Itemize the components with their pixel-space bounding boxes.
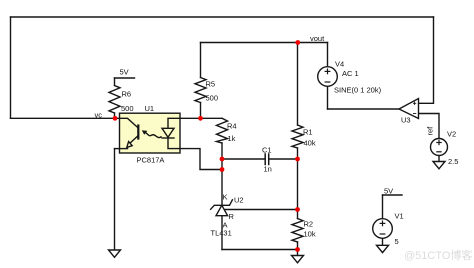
svg-text:40k: 40k: [304, 139, 316, 148]
svg-text:R1: R1: [303, 128, 313, 137]
U1 phototransistor collector: [120, 118, 139, 128]
wire R6 bottom lead: [114, 113, 116, 118]
V2 minus sign: [437, 151, 441, 153]
svg-text:5: 5: [395, 237, 399, 246]
U1 phototransistor emitter: [129, 136, 139, 145]
wire opamp minus input: [419, 114, 440, 139]
wire U1 led cathode to TL431: [180, 149, 222, 170]
voltage source V4: [318, 67, 338, 87]
svg-text:V1: V1: [395, 212, 404, 221]
wire 5V stub right: [383, 194, 403, 196]
TL431 U2 cathode bar: [211, 200, 233, 210]
wire U1 emitter pin out: [115, 148, 120, 150]
wire V1 top lead: [382, 195, 384, 219]
wire V1 ground lead: [382, 238, 384, 245]
wire TL431 ref to R2 junction: [224, 209, 298, 211]
wire V2 ground lead: [438, 156, 440, 162]
svg-text:U1: U1: [145, 104, 155, 113]
wire vc row: [11, 117, 120, 119]
resistor R6: [109, 86, 120, 114]
voltage source V1: [373, 219, 393, 239]
svg-text:ref: ref: [426, 126, 435, 136]
svg-text:2.5: 2.5: [448, 157, 458, 166]
svg-text:V4: V4: [335, 60, 344, 69]
resistor R4: [217, 118, 228, 143]
svg-text:1n: 1n: [264, 165, 272, 174]
wire R1 top lead: [297, 43, 299, 126]
svg-text:TL431: TL431: [211, 229, 232, 238]
wire R4 to C1 junction down: [221, 159, 223, 170]
U1 led cathode lead: [168, 138, 180, 149]
wire R1 bottom lead: [297, 148, 299, 159]
wire R6 top lead: [114, 78, 116, 86]
wire top rail: [11, 16, 434, 18]
U1 light arrowhead: [142, 130, 148, 135]
junction ref R2: [295, 207, 300, 212]
svg-text:SINE(0 1 20k): SINE(0 1 20k): [334, 86, 382, 95]
wire C1 left: [222, 158, 265, 160]
svg-text:R6: R6: [122, 90, 132, 99]
wire C1 right: [269, 158, 298, 160]
junction R5 R4 U1: [198, 116, 203, 121]
wire V4 top lead: [327, 43, 329, 67]
U1 emitter arrowhead: [127, 142, 132, 148]
svg-text:10k: 10k: [304, 230, 316, 239]
U1 emitter pin line: [120, 148, 128, 150]
resistor R1: [292, 125, 303, 148]
svg-text:1k: 1k: [228, 134, 236, 143]
svg-text:C1: C1: [262, 146, 272, 155]
resistor R2: [292, 219, 303, 243]
wire V4 bottom lead: [327, 86, 329, 109]
wire R2 bottom lead: [297, 242, 299, 250]
svg-text:PC817A: PC817A: [137, 156, 165, 165]
U1 led triangle: [162, 128, 174, 137]
wire left ground lead: [114, 149, 116, 250]
U1 phototransistor base bar: [137, 126, 139, 139]
wire opamp plus input: [419, 17, 434, 103]
U3 minus mark: [413, 113, 415, 115]
svg-text:500: 500: [121, 104, 134, 113]
U3 plus mark: [413, 102, 415, 104]
wire junction to R4: [201, 117, 223, 119]
wire R5 bottom lead: [200, 103, 202, 119]
wire R2 top lead: [297, 210, 299, 219]
junction U1 TL431: [220, 167, 225, 172]
svg-text:U3: U3: [401, 116, 411, 125]
wire R1 to R2 segment: [297, 159, 299, 210]
wire vout rail: [201, 42, 328, 44]
wire U1 top right to junction: [180, 117, 201, 119]
svg-text:500: 500: [206, 94, 219, 103]
junction vout: [295, 40, 300, 45]
junction bottom rail: [295, 247, 300, 252]
svg-text:R4: R4: [227, 122, 237, 131]
junction vc: [113, 116, 118, 121]
ground under V2: [433, 162, 445, 169]
wire left rail: [10, 17, 12, 118]
U1 light arrow squiggle: [145, 132, 161, 137]
junction C1 R1: [295, 157, 300, 162]
resistor R5: [195, 78, 206, 103]
voltage source V2: [431, 139, 448, 156]
V1 plus sign: [380, 221, 385, 226]
U1 led cathode bar: [162, 137, 174, 139]
svg-text:R: R: [229, 212, 235, 221]
wire TL431 anode lead: [221, 216, 223, 250]
wire R5 top lead: [200, 43, 202, 78]
TL431 U2 triangle: [216, 205, 228, 215]
capacitor C1: [265, 154, 269, 165]
svg-text:vout: vout: [310, 34, 325, 43]
V1 minus sign: [380, 233, 385, 235]
ground under R2: [292, 256, 304, 263]
V4 minus sign: [325, 81, 330, 83]
svg-text:V2: V2: [447, 130, 456, 139]
svg-text:@51CTO博客: @51CTO博客: [404, 248, 472, 262]
wire ground lead under R2: [297, 250, 299, 256]
svg-text:U2: U2: [234, 196, 244, 205]
svg-text:R2: R2: [304, 220, 314, 229]
opamp U3 triangle: [399, 99, 419, 119]
U1 led anode lead: [168, 118, 180, 128]
svg-text:5V: 5V: [120, 68, 129, 77]
svg-text:R5: R5: [206, 80, 216, 89]
svg-text:vc: vc: [95, 111, 103, 120]
V2 plus sign: [437, 140, 441, 144]
wire U2 cathode lead: [221, 170, 223, 206]
ground under V1: [377, 245, 389, 252]
svg-text:5V: 5V: [384, 187, 393, 196]
optocoupler U1 body: [120, 113, 181, 153]
svg-text:K: K: [223, 193, 228, 202]
ground left under U1: [109, 250, 121, 257]
svg-text:AC 1: AC 1: [342, 69, 359, 78]
V4 plus sign: [325, 69, 330, 74]
junction R4 C1: [220, 157, 225, 162]
wire opamp output row: [328, 108, 400, 110]
wire 5V stub left: [115, 77, 135, 79]
wire bottom rail U2 to R2: [222, 249, 298, 251]
wire R4 bottom lead: [221, 143, 223, 159]
